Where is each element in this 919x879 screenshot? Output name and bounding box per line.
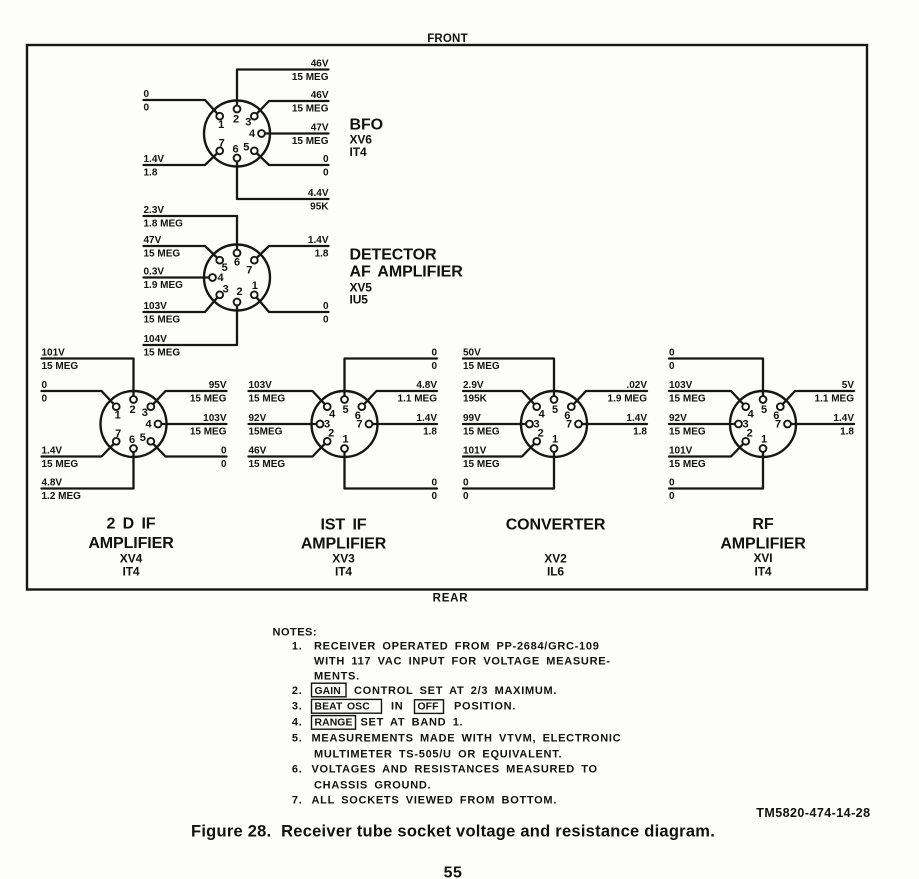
svg-text:0: 0 (669, 361, 675, 372)
svg-text:VOLTAGES AND RESISTANCES MEASU: VOLTAGES AND RESISTANCES MEASURED TO (312, 764, 598, 776)
pin 1 of XV2 (551, 434, 558, 452)
pin 4 of XVI (742, 403, 754, 420)
wire pin 2 of XV5 to label 104V/15 MEG (144, 302, 238, 345)
pin 7 of XVI (775, 419, 791, 431)
svg-text:0: 0 (144, 102, 150, 113)
wire pin 1 of XV2 to label 0/0 (463, 449, 554, 489)
wire pin 3 of XV6 to label 46V/15 MEG (254, 101, 328, 116)
svg-text:7: 7 (775, 419, 781, 431)
svg-text:IL6: IL6 (547, 565, 564, 579)
svg-text:7: 7 (356, 419, 362, 431)
pin 5 of XV6 (243, 141, 257, 154)
svg-text:0: 0 (431, 477, 437, 488)
svg-text:POSITION.: POSITION. (454, 701, 516, 713)
svg-text:4.4V: 4.4V (308, 188, 329, 199)
label pin 6 of XV5: 2.3V over 1.8 MEG (144, 205, 184, 230)
svg-text:92V: 92V (669, 413, 687, 424)
svg-text:103V: 103V (203, 413, 227, 424)
pin 4 of XV4 (145, 419, 161, 431)
tube socket XV3 (1ST IF AMPLIFIER) outline (312, 391, 378, 457)
wire pin 1 of XVI to label 0/0 (669, 449, 763, 489)
pin 3 of XV3 (317, 419, 330, 431)
svg-text:15 MEG: 15 MEG (144, 347, 181, 358)
pin 3 of XV4 (142, 403, 154, 419)
label pin 4 of XV4: 103V over 15 MEG (190, 413, 227, 438)
svg-text:BFO: BFO (350, 117, 383, 134)
tube socket XV2 (CONVERTER) outline (521, 391, 587, 457)
svg-text:IT4: IT4 (122, 565, 139, 579)
svg-text:.02V: .02V (626, 380, 647, 391)
label pin 1 of XV3: 0 over 0 (431, 477, 437, 502)
svg-text:AF AMPLIFIER: AF AMPLIFIER (350, 264, 464, 281)
svg-text:7: 7 (246, 265, 252, 277)
svg-text:4: 4 (539, 409, 546, 421)
label pin 1 of XVI: 0 over 0 (669, 477, 675, 502)
wire pin 2 of XV6 to label 46V/15 MEG (237, 70, 329, 110)
label pin 3 of XV6: 46V over 15 MEG (292, 90, 329, 115)
svg-text:99V: 99V (463, 413, 481, 424)
svg-text:1.4V: 1.4V (416, 413, 437, 424)
svg-text:6: 6 (234, 257, 240, 269)
svg-text:3.: 3. (292, 701, 303, 713)
svg-text:0: 0 (221, 445, 227, 456)
svg-text:1.2 MEG: 1.2 MEG (42, 491, 82, 502)
label pin 7 of XV4: 1.4V over 15 MEG (42, 445, 79, 470)
svg-text:3: 3 (223, 283, 229, 295)
wire pin 5 of XV2 to label 50V/15 MEG (463, 359, 554, 400)
wire pin 5 of XV5 to label 47V/15 MEG (144, 246, 220, 260)
label pin 6 of XV6: 4.4V over 95K (308, 188, 329, 213)
svg-text:1: 1 (252, 280, 258, 292)
svg-text:1.8: 1.8 (840, 426, 854, 437)
svg-text:NOTES:: NOTES: (273, 627, 318, 639)
pin 6 of XV2 (564, 403, 574, 422)
wire pin 7 of XV6 to label 1.4V/1.8 (144, 151, 220, 165)
svg-text:1.: 1. (292, 641, 303, 653)
box around RANGE (312, 716, 356, 730)
pin 5 of XV2 (551, 396, 558, 416)
chassis outline frame (27, 45, 867, 590)
svg-text:15 MEG: 15 MEG (249, 393, 286, 404)
box around GAIN (312, 683, 347, 697)
pin 5 of XVI (760, 396, 767, 416)
wire pin 6 of XV4 to label 4.8V/1.2 MEG (42, 449, 134, 489)
svg-text:7: 7 (115, 428, 121, 440)
svg-text:103V: 103V (144, 301, 168, 312)
pin 7 of XV4 (113, 428, 121, 445)
designator block XVI (RF AMPLIFIER) (720, 516, 806, 579)
svg-text:2: 2 (236, 286, 242, 298)
svg-text:0: 0 (323, 154, 329, 165)
svg-text:1: 1 (761, 434, 767, 446)
svg-text:MULTIMETER TS-505/U OR EQUIVAL: MULTIMETER TS-505/U OR EQUIVALENT. (314, 749, 562, 761)
label pin 4 of XV2: 2.9V over 195K (463, 380, 488, 405)
svg-text:5: 5 (552, 404, 558, 416)
pin 6 of XV4 (129, 434, 137, 452)
wire pin 7 of XVI to label 1.4V/1.8 (788, 423, 855, 425)
svg-text:DETECTOR: DETECTOR (350, 247, 437, 264)
svg-text:47V: 47V (144, 235, 162, 246)
pin 4 of XV2 (533, 403, 545, 420)
svg-text:2.9V: 2.9V (463, 380, 484, 391)
svg-text:XVI: XVI (753, 551, 772, 565)
pin 6 of XV3 (355, 403, 365, 422)
svg-text:15 MEG: 15 MEG (249, 459, 286, 470)
svg-text:15 MEG: 15 MEG (42, 361, 79, 372)
svg-text:CONTROL SET AT 2/3 MAXIMUM.: CONTROL SET AT 2/3 MAXIMUM. (354, 685, 557, 697)
pin 3 of XV5 (216, 283, 228, 298)
designator block XV6 (BFO) (350, 117, 383, 160)
label pin 2 of XV6: 46V over 15 MEG (292, 58, 329, 83)
svg-text:15 MEG: 15 MEG (292, 136, 329, 147)
label pin 2 of XV3: 46V over 15 MEG (249, 445, 286, 470)
svg-text:15 MEG: 15 MEG (463, 361, 500, 372)
svg-text:BEAT OSC: BEAT OSC (315, 702, 371, 713)
wire pin 1 of XV3 to label 0/0 (345, 449, 438, 489)
wire pin 7 of XV4 to label 1.4V/15 MEG (42, 441, 117, 456)
wire pin 3 of XV2 to label 99V/15 MEG (463, 423, 530, 425)
svg-text:15 MEG: 15 MEG (42, 459, 79, 470)
svg-text:0: 0 (431, 491, 437, 502)
label pin 5 of XV3: 0 over 0 (431, 347, 437, 372)
svg-text:55: 55 (444, 865, 463, 879)
svg-text:1.8: 1.8 (315, 248, 329, 259)
svg-text:15 MEG: 15 MEG (144, 248, 181, 259)
svg-text:4.: 4. (292, 717, 303, 729)
label pin 1 of XV2: 0 over 0 (463, 477, 469, 502)
svg-text:WITH 117 VAC INPUT FOR VOLTAGE: WITH 117 VAC INPUT FOR VOLTAGE MEASURE- (314, 656, 611, 668)
svg-text:2.: 2. (292, 685, 303, 697)
svg-text:1: 1 (342, 434, 348, 446)
pin 2 of XV2 (533, 427, 543, 444)
svg-text:101V: 101V (463, 445, 487, 456)
pin 2 of XV6 (233, 106, 240, 126)
tube socket XV6 (BFO) outline (204, 101, 270, 167)
svg-text:MEASUREMENTS MADE WITH VTVM, E: MEASUREMENTS MADE WITH VTVM, ELECTRONIC (312, 733, 622, 745)
wire pin 6 of XV6 to label 4.4V/95K (237, 158, 329, 199)
pin 3 of XVI (735, 419, 748, 431)
svg-text:0: 0 (463, 491, 469, 502)
svg-text:1.9 MEG: 1.9 MEG (144, 280, 184, 291)
svg-text:5: 5 (761, 404, 767, 416)
svg-text:1.4V: 1.4V (308, 235, 329, 246)
pin 7 of XV3 (356, 419, 372, 431)
svg-text:0: 0 (323, 167, 329, 178)
label pin 6 of XVI: 5V over 1.1 MEG (815, 380, 855, 405)
label pin 5 of XV2: 50V over 15 MEG (463, 347, 500, 372)
svg-text:0.3V: 0.3V (144, 266, 165, 277)
label pin 1 of XV4: 0 over 0 (42, 380, 48, 405)
wire pin 1 of XV4 to label 0/0 (42, 391, 117, 407)
wire pin 3 of XV5 to label 103V/15 MEG (144, 295, 220, 312)
svg-text:AMPLIFIER: AMPLIFIER (301, 536, 387, 553)
pin 5 of XV4 (140, 432, 154, 445)
wire pin 4 of XV3 to label 103V/15 MEG (249, 391, 328, 407)
svg-text:5V: 5V (842, 380, 855, 391)
box around BEAT OSC (312, 699, 382, 713)
label pin 2 of XV4: 101V over 15 MEG (42, 347, 79, 372)
svg-text:4: 4 (748, 409, 755, 421)
svg-text:1.4V: 1.4V (144, 154, 165, 165)
svg-text:15MEG: 15MEG (249, 426, 283, 437)
svg-text:101V: 101V (42, 347, 66, 358)
svg-text:2 D IF: 2 D IF (107, 516, 156, 533)
pin 1 of XV4 (113, 403, 121, 421)
pin 6 of XVI (773, 403, 783, 422)
svg-text:0: 0 (431, 361, 437, 372)
svg-text:7: 7 (566, 419, 572, 431)
label pin 4 of XV6: 47V over 15 MEG (292, 122, 329, 147)
label pin 4 of XV3: 103V over 15 MEG (249, 380, 286, 405)
pin 5 of XV5 (216, 257, 227, 274)
svg-text:1: 1 (552, 434, 558, 446)
label pin 3 of XV3: 92V over 15MEG (249, 413, 283, 438)
designator block XV4 (2D IF AMPLIFIER) (88, 516, 174, 579)
svg-text:103V: 103V (249, 380, 273, 391)
svg-text:103V: 103V (669, 380, 693, 391)
svg-text:IT4: IT4 (754, 565, 771, 579)
svg-text:6: 6 (232, 144, 238, 156)
wire pin 3 of XV4 to label 95V/15 MEG (151, 391, 227, 407)
label pin 7 of XV2: 1.4V over 1.8 (626, 413, 647, 438)
svg-text:50V: 50V (463, 347, 481, 358)
wire pin 4 of XV6 to label 47V/15 MEG (262, 132, 329, 134)
pin 3 of XV2 (526, 419, 539, 431)
svg-text:1.8: 1.8 (144, 167, 158, 178)
svg-text:195K: 195K (463, 393, 488, 404)
svg-text:6.: 6. (292, 764, 303, 776)
svg-text:46V: 46V (249, 445, 267, 456)
wire pin 5 of XVI to label 0/0 (669, 359, 763, 400)
svg-text:0: 0 (323, 314, 329, 325)
svg-text:4: 4 (249, 128, 256, 140)
svg-text:15 MEG: 15 MEG (190, 393, 227, 404)
svg-text:SET AT BAND 1.: SET AT BAND 1. (361, 717, 464, 729)
label pin 1 of XV6: 0 over 0 (144, 89, 150, 114)
svg-text:ALL SOCKETS VIEWED FROM BOTTOM: ALL SOCKETS VIEWED FROM BOTTOM. (312, 795, 558, 807)
wire pin 6 of XV3 to label 4.8V/1.1 MEG (362, 391, 437, 407)
svg-text:XV2: XV2 (544, 552, 567, 566)
label pin 4 of XV5: 0.3V over 1.9 MEG (144, 266, 184, 291)
svg-text:TM5820-474-14-28: TM5820-474-14-28 (756, 806, 870, 820)
svg-text:4: 4 (329, 409, 336, 421)
tube socket XVI (RF AMPLIFIER) outline (730, 391, 796, 457)
svg-text:0: 0 (221, 459, 227, 470)
svg-text:OFF: OFF (418, 702, 439, 713)
label pin 3 of XV5: 103V over 15 MEG (144, 301, 181, 326)
svg-text:1: 1 (218, 119, 224, 131)
label pin 7 of XVI: 1.4V over 1.8 (833, 413, 854, 438)
svg-text:Figure 28. Receiver tube sock: Figure 28. Receiver tube socket voltage … (191, 822, 715, 840)
svg-text:4.8V: 4.8V (416, 380, 437, 391)
label pin 2 of XVI: 101V over 15 MEG (669, 445, 706, 470)
svg-text:15 MEG: 15 MEG (669, 393, 706, 404)
label pin 7 of XV5: 1.4V over 1.8 (308, 235, 329, 260)
label pin 5 of XV6: 0 over 0 (323, 154, 329, 179)
tube socket XV5 (DETECTOR / AF AMPLIFIER) outline (204, 245, 270, 311)
svg-text:15 MEG: 15 MEG (292, 72, 329, 83)
wire pin 2 of XVI to label 101V/15 MEG (669, 441, 746, 456)
svg-text:IT4: IT4 (335, 565, 352, 579)
pin 7 of XV2 (566, 419, 582, 431)
pin 6 of XV6 (232, 144, 240, 162)
label pin 6 of XV3: 4.8V over 1.1 MEG (398, 380, 438, 405)
pin 6 of XV5 (234, 250, 241, 269)
svg-text:47V: 47V (311, 122, 329, 133)
svg-text:15 MEG: 15 MEG (292, 103, 329, 114)
pin 7 of XV5 (246, 257, 257, 277)
label pin 2 of XV2: 101V over 15 MEG (463, 445, 500, 470)
svg-text:RECEIVER OPERATED FROM PP-2684: RECEIVER OPERATED FROM PP-2684/GRC-109 (314, 641, 600, 653)
svg-text:0: 0 (669, 347, 675, 358)
label pin 6 of XV2: .02V over 1.9 MEG (608, 380, 648, 405)
wire pin 7 of XV5 to label 1.4V/1.8 (254, 246, 328, 260)
svg-text:XV4: XV4 (120, 552, 143, 566)
wire pin 2 of XV3 to label 46V/15 MEG (249, 441, 328, 456)
wire pin 3 of XV3 to label 92V/15MEG (249, 423, 321, 425)
label pin 7 of XV6: 1.4V over 1.8 (144, 154, 165, 179)
label pin 4 of XVI: 103V over 15 MEG (669, 380, 706, 405)
svg-text:CONVERTER: CONVERTER (506, 517, 606, 534)
svg-text:92V: 92V (249, 413, 267, 424)
pin 1 of XV3 (341, 434, 348, 452)
svg-text:3: 3 (245, 117, 251, 129)
label pin 3 of XV2: 99V over 15 MEG (463, 413, 500, 438)
pin 7 of XV6 (216, 137, 224, 154)
svg-text:15 MEG: 15 MEG (144, 314, 181, 325)
svg-text:2: 2 (233, 114, 239, 126)
svg-text:4: 4 (145, 419, 152, 431)
wire pin 1 of XV5 to label 0/0 (254, 295, 328, 312)
svg-text:AMPLIFIER: AMPLIFIER (720, 536, 806, 553)
svg-text:0: 0 (144, 89, 150, 100)
svg-text:5: 5 (222, 262, 228, 274)
svg-text:1: 1 (115, 410, 121, 422)
svg-text:RF: RF (752, 516, 773, 533)
svg-text:0: 0 (42, 393, 48, 404)
svg-text:15 MEG: 15 MEG (190, 426, 227, 437)
pin 2 of XVI (742, 427, 752, 444)
designator block XV3 (1ST IF AMPLIFIER) (301, 517, 387, 579)
wire pin 6 of XVI to label 5V/1.1 MEG (780, 391, 854, 407)
svg-text:1.8: 1.8 (423, 426, 437, 437)
svg-text:95V: 95V (209, 380, 227, 391)
svg-text:0: 0 (431, 347, 437, 358)
svg-text:3: 3 (142, 407, 148, 419)
svg-text:15 MEG: 15 MEG (463, 426, 500, 437)
svg-text:0: 0 (42, 380, 48, 391)
label pin 1 of XV5: 0 over 0 (323, 301, 329, 326)
wire pin 4 of XV4 to label 103V/15 MEG (158, 423, 227, 425)
pin 4 of XV6 (249, 128, 265, 140)
svg-text:IST IF: IST IF (321, 517, 367, 534)
svg-text:XV3: XV3 (332, 552, 355, 566)
label pin 6 of XV4: 4.8V over 1.2 MEG (42, 477, 82, 502)
svg-text:4.8V: 4.8V (42, 477, 63, 488)
label pin 3 of XV4: 95V over 15 MEG (190, 380, 227, 405)
wire pin 6 of XV2 to label .02V/1.9 MEG (571, 391, 647, 407)
wire pin 5 of XV3 to label 0/0 (345, 359, 438, 400)
wire pin 7 of XV3 to label 1.4V/1.8 (369, 423, 437, 425)
wire pin 2 of XV2 to label 101V/15 MEG (463, 441, 537, 456)
pin 1 of XVI (760, 434, 767, 452)
svg-text:101V: 101V (669, 445, 693, 456)
wire pin 4 of XV5 to label 0.3V/1.9 MEG (144, 276, 213, 278)
svg-text:15 MEG: 15 MEG (669, 426, 706, 437)
svg-text:5: 5 (140, 432, 146, 444)
wire pin 7 of XV2 to label 1.4V/1.8 (579, 423, 648, 425)
pin 1 of XV5 (251, 280, 258, 298)
svg-text:1.8 MEG: 1.8 MEG (144, 218, 184, 229)
svg-text:0: 0 (669, 477, 675, 488)
wire pin 5 of XV4 to label 0/0 (151, 441, 227, 456)
svg-text:CHASSIS GROUND.: CHASSIS GROUND. (314, 780, 431, 792)
svg-text:5.: 5. (292, 733, 303, 745)
svg-text:2.3V: 2.3V (144, 205, 165, 216)
svg-text:104V: 104V (144, 334, 168, 345)
label pin 2 of XV5: 104V over 15 MEG (144, 334, 181, 359)
svg-text:1.4V: 1.4V (626, 413, 647, 424)
svg-text:GAIN: GAIN (315, 686, 341, 697)
svg-text:RANGE: RANGE (315, 718, 353, 729)
wire pin 3 of XVI to label 92V/15 MEG (669, 423, 739, 425)
svg-text:7: 7 (219, 137, 225, 149)
svg-text:IU5: IU5 (350, 293, 369, 307)
svg-text:0: 0 (669, 491, 675, 502)
label pin 5 of XV4: 0 over 0 (221, 445, 227, 470)
label pin 3 of XVI: 92V over 15 MEG (669, 413, 706, 438)
label pin 5 of XV5: 47V over 15 MEG (144, 235, 181, 260)
svg-text:1.4V: 1.4V (42, 445, 63, 456)
svg-text:15 MEG: 15 MEG (463, 459, 500, 470)
designator block XV2 (CONVERTER) (506, 517, 606, 579)
pin 2 of XV3 (324, 427, 334, 444)
wire pin 2 of XV4 to label 101V/15 MEG (42, 359, 134, 400)
svg-text:15 MEG: 15 MEG (669, 459, 706, 470)
pin 2 of XV5 (234, 286, 243, 305)
svg-text:MENTS.: MENTS. (314, 671, 360, 683)
svg-text:IN: IN (391, 701, 403, 713)
pin 1 of XV6 (216, 113, 224, 131)
pin 4 of XV3 (324, 403, 336, 420)
svg-text:46V: 46V (311, 58, 329, 69)
designator block XV5 (DETECTOR / AF AMPLIFIER) (350, 247, 464, 307)
svg-text:0: 0 (323, 301, 329, 312)
svg-text:1.1 MEG: 1.1 MEG (398, 393, 438, 404)
svg-text:FRONT: FRONT (427, 33, 468, 45)
svg-text:1.1 MEG: 1.1 MEG (815, 393, 855, 404)
box around OFF (415, 700, 444, 714)
wire pin 4 of XV2 to label 2.9V/195K (463, 391, 537, 407)
svg-text:1.8: 1.8 (633, 426, 647, 437)
pin 4 of XV5 (209, 272, 224, 284)
wire pin 4 of XVI to label 103V/15 MEG (669, 391, 746, 407)
svg-text:1.4V: 1.4V (833, 413, 854, 424)
svg-text:5: 5 (243, 141, 249, 153)
svg-text:6: 6 (129, 434, 135, 446)
label pin 5 of XVI: 0 over 0 (669, 347, 675, 372)
svg-text:1.9 MEG: 1.9 MEG (608, 393, 648, 404)
wire pin 5 of XV6 to label 0/0 (254, 151, 328, 165)
svg-text:REAR: REAR (433, 593, 469, 605)
pin 2 of XV4 (129, 396, 136, 416)
wire pin 1 of XV6 to label 0/0 (144, 100, 220, 116)
svg-text:46V: 46V (311, 90, 329, 101)
pin 5 of XV3 (341, 396, 348, 416)
svg-text:5: 5 (342, 404, 348, 416)
svg-text:7.: 7. (292, 795, 303, 807)
label pin 7 of XV3: 1.4V over 1.8 (416, 413, 437, 438)
